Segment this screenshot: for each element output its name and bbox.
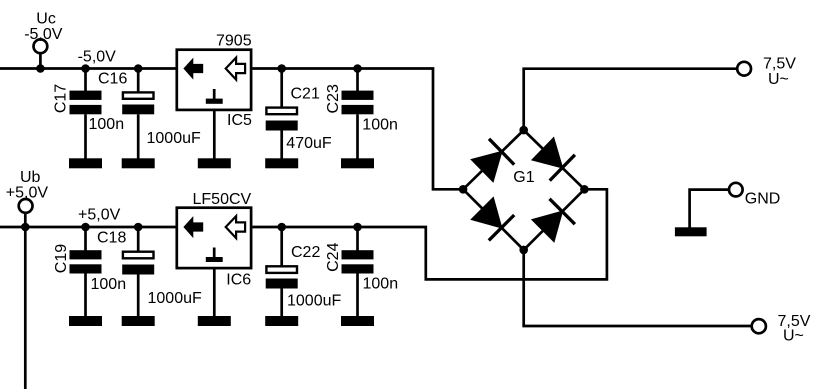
label IC5 <box>227 112 252 129</box>
svg-text:C18: C18 <box>97 230 126 247</box>
svg-text:C21: C21 <box>291 85 320 102</box>
value 1000uF (C18) <box>148 290 202 307</box>
IC6 ground pin wire <box>213 269 216 317</box>
value 470uF (C21) <box>286 135 332 152</box>
capacitor C17 <box>70 69 102 160</box>
ground (C24) <box>341 316 374 326</box>
IC5 internal ground symbol <box>206 89 223 104</box>
terminal 7,5V top <box>737 62 751 76</box>
svg-text:1000uF: 1000uF <box>287 292 341 309</box>
node dot bridge bottom corner <box>519 246 528 255</box>
svg-text:U~: U~ <box>768 71 789 88</box>
label C17 <box>52 84 69 113</box>
terminal 7,5V bottom <box>752 319 766 333</box>
label C24 <box>325 242 342 271</box>
label GND <box>745 191 781 208</box>
node dot C16 <box>134 64 143 73</box>
node dot bridge top corner <box>519 126 528 135</box>
IC5 input arrow (filled) <box>183 58 203 80</box>
svg-text:IC6: IC6 <box>226 271 251 288</box>
value 100n (C24) <box>363 276 399 293</box>
capacitor C24 <box>342 227 374 317</box>
node dot C19 <box>81 223 90 232</box>
svg-text:C17: C17 <box>52 84 69 113</box>
terminal Uc <box>34 39 48 68</box>
value 100n (C23) <box>362 116 398 133</box>
IC6 input arrow (filled) <box>183 216 203 238</box>
ground (C16) <box>122 158 155 168</box>
label +5,0V (terminal Ub) <box>6 185 49 202</box>
svg-text:100n: 100n <box>362 116 398 133</box>
ground (C19) <box>69 316 102 326</box>
terminal GND <box>729 183 743 197</box>
label 7,5V (bottom) <box>778 313 811 330</box>
svg-text:Ub: Ub <box>20 169 41 186</box>
wire top -5V rail right segment to bridge left corner <box>252 69 463 190</box>
label 7,5V (top) <box>763 56 796 73</box>
node dot C24 <box>353 223 362 232</box>
svg-text:LF50CV: LF50CV <box>193 191 252 208</box>
label G1 <box>513 169 534 186</box>
ground (C22) <box>265 316 298 326</box>
svg-text:IC5: IC5 <box>227 112 252 129</box>
capacitor C22 <box>266 227 298 317</box>
label C16 <box>98 71 127 88</box>
svg-text:470uF: 470uF <box>286 135 332 152</box>
IC6 output arrow (outline) <box>226 216 245 238</box>
svg-text:C22: C22 <box>291 244 320 261</box>
capacitor C21 <box>266 69 298 160</box>
ground (C18) <box>122 316 155 326</box>
ground (C21) <box>265 158 298 168</box>
svg-text:G1: G1 <box>513 169 534 186</box>
label 7905 <box>216 32 252 49</box>
node dot C23 <box>353 64 362 73</box>
node dot Ub on rail <box>21 223 30 232</box>
svg-text:GND: GND <box>745 191 781 208</box>
svg-text:1000uF: 1000uF <box>147 130 201 147</box>
label Uc <box>36 10 56 27</box>
value 1000uF (C22) <box>287 292 341 309</box>
regulator IC6 LF50CV box <box>177 208 251 268</box>
label -5,0V (rail net) <box>78 49 117 66</box>
svg-text:C23: C23 <box>325 84 342 113</box>
ground (C17) <box>69 158 102 168</box>
label C23 <box>325 84 342 113</box>
node dot Uc on rail <box>36 64 45 73</box>
svg-text:+5,0V: +5,0V <box>78 207 121 224</box>
node dot bridge right corner <box>580 185 589 194</box>
label Ub <box>20 169 41 186</box>
svg-text:-5,0V: -5,0V <box>78 49 117 66</box>
IC5 ground pin wire <box>213 111 216 160</box>
terminal Ub <box>19 199 33 227</box>
label C21 <box>291 85 320 102</box>
node dot bridge left corner <box>459 185 468 194</box>
svg-text:7905: 7905 <box>216 32 252 49</box>
regulator IC5 7905 box <box>177 50 251 110</box>
IC6 internal ground symbol <box>206 248 223 263</box>
wire Ub rail down to sheet edge <box>24 227 27 389</box>
wire top -5V rail left segment <box>0 67 176 70</box>
wire bridge top corner to top AC terminal <box>524 69 737 130</box>
diode G1 D1 (left to top) <box>463 130 524 189</box>
value 100n (C19) <box>91 276 127 293</box>
value 100n (C17) <box>89 116 125 133</box>
IC5 output arrow (outline) <box>226 58 245 80</box>
node dot C22 <box>277 223 286 232</box>
label -5,0V (terminal Uc) <box>24 26 63 43</box>
svg-text:100n: 100n <box>89 116 125 133</box>
node dot C17 <box>81 64 90 73</box>
svg-text:C16: C16 <box>98 71 127 88</box>
ground (IC6) <box>198 316 231 326</box>
svg-text:Uc: Uc <box>36 10 56 27</box>
capacitor C23 <box>342 69 374 160</box>
wire bridge bottom corner to bottom AC terminal <box>524 250 752 326</box>
label C22 <box>291 244 320 261</box>
label U~ (top) <box>768 71 789 88</box>
diode G1 D4 (bottom to right) <box>524 189 585 250</box>
label LF50CV <box>193 191 252 208</box>
svg-text:1000uF: 1000uF <box>148 290 202 307</box>
svg-text:C19: C19 <box>53 244 70 273</box>
wire GND terminal to ground <box>690 190 729 228</box>
value 1000uF (C16) <box>147 130 201 147</box>
capacitor C16 <box>122 69 154 160</box>
wire bottom +5V rail left segment <box>0 226 176 229</box>
ground (C23) <box>341 158 374 168</box>
ground (IC5) <box>198 158 231 168</box>
wire bridge right corner to +5V rail <box>252 189 607 279</box>
ground (GND terminal) <box>675 227 707 236</box>
svg-text:-5,0V: -5,0V <box>24 26 63 43</box>
svg-text:U~: U~ <box>783 328 804 345</box>
label C19 <box>53 244 70 273</box>
diode G1 D2 (top to right) <box>524 130 585 189</box>
label U~ (bottom) <box>783 328 804 345</box>
capacitor C18 <box>122 227 154 317</box>
diode G1 D3 (left to bottom) <box>463 189 524 250</box>
svg-text:+5,0V: +5,0V <box>6 185 49 202</box>
node dot C21 <box>277 64 286 73</box>
capacitor C19 <box>70 227 102 317</box>
svg-text:C24: C24 <box>325 242 342 271</box>
svg-text:7,5V: 7,5V <box>763 56 796 73</box>
label C18 <box>97 230 126 247</box>
svg-text:100n: 100n <box>91 276 127 293</box>
label IC6 <box>226 271 251 288</box>
node dot C18 <box>134 223 143 232</box>
label +5,0V (rail net) <box>78 207 121 224</box>
svg-text:100n: 100n <box>363 276 399 293</box>
